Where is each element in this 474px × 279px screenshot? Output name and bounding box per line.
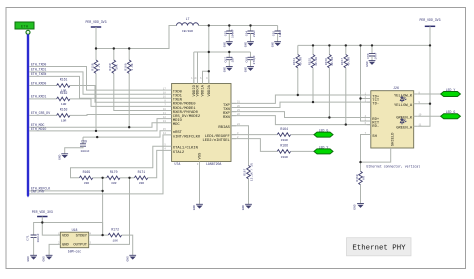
svg-text:YELLOW_A: YELLOW_A (394, 104, 413, 108)
ground for C64 (245, 42, 254, 48)
svg-text:GND: GND (27, 256, 30, 262)
svg-text:GND: GND (126, 256, 129, 262)
svg-text:PER_VDD_3V3: PER_VDD_3V3 (32, 210, 53, 214)
svg-text:49.9R: 49.9R (348, 57, 351, 66)
svg-text:VDD2A: VDD2A (208, 84, 212, 96)
junction at (97.2,137.1) (96, 136, 98, 138)
connector J26 RJ45 (365, 86, 422, 148)
capacitor C71 (27, 223, 43, 256)
wire ETH_TXEN (29, 76, 167, 98)
svg-text:1.5K: 1.5K (131, 63, 134, 70)
svg-text:ETH: ETH (21, 26, 29, 30)
ground for R172 (126, 255, 136, 261)
svg-text:GND: GND (223, 67, 226, 73)
svg-text:4.7K: 4.7K (98, 63, 101, 70)
svg-text:10K: 10K (112, 240, 118, 243)
svg-text:GND: GND (272, 42, 275, 48)
svg-text:10R: 10R (61, 103, 67, 106)
port LED_Y (green flag) (314, 145, 333, 154)
capacitor C69 on reset node (65, 137, 90, 154)
svg-text:L7: L7 (186, 17, 190, 21)
wire TXP to TD+ (231, 95, 371, 103)
junction at (297.8,95) (297, 94, 299, 96)
capacitor C63 (224, 26, 234, 42)
wire R164 to LED_G (291, 134, 314, 136)
svg-text:10R: 10R (61, 120, 67, 123)
capacitor C64 (246, 26, 256, 42)
junction at (129.2,48.5) (128, 47, 130, 49)
resistor R167 bias (244, 163, 254, 204)
svg-text:49.9R: 49.9R (331, 57, 334, 66)
wire TXN to TD- (231, 102, 371, 107)
svg-text:R167: R167 (244, 168, 247, 175)
svg-text:22uF: 22uF (253, 30, 256, 37)
wire ETH_RXD0 (right of R161) (70, 86, 167, 103)
svg-text:GND: GND (59, 154, 62, 160)
wire refclk node down to oscillator STBY (102, 178, 104, 235)
wire ETH_TXD0 (29, 67, 167, 91)
wire LED2 row (231, 139, 277, 152)
svg-text:U7A: U7A (175, 162, 181, 166)
resistor R172 (108, 227, 121, 242)
svg-text:LED2/nINTSEL: LED2/nINTSEL (202, 138, 230, 143)
wire ETH_CRS_DV (right of R163) (70, 114, 167, 117)
svg-text:YELLOW_K: YELLOW_K (394, 94, 413, 98)
wire ETH_RXD1 (right of R162) (70, 99, 167, 107)
junction at (129.2,127.2) (128, 126, 130, 128)
resistor R156 termination (325, 45, 334, 117)
svg-text:49.9R: 49.9R (300, 57, 303, 66)
svg-text:STDBY: STDBY (76, 234, 88, 238)
svg-text:C71: C71 (27, 235, 30, 241)
capacitor C68 (246, 52, 256, 67)
wire R172 to ground (122, 235, 133, 255)
svg-text:ETH_MDIO: ETH_MDIO (31, 127, 46, 131)
svg-text:0R: 0R (362, 176, 365, 180)
wire ETH_CRS_DV (left of R163) (29, 114, 57, 116)
svg-text:33R: 33R (84, 182, 90, 185)
junction at (129.5,177.8) (128, 177, 130, 179)
resistor R169 (79, 170, 92, 185)
junction at (229.3,25.5) (228, 24, 230, 26)
svg-text:GND: GND (43, 256, 46, 262)
ground for C71 (27, 255, 37, 261)
ground for C63 (223, 42, 232, 48)
resistor R160 pull-up (125, 49, 134, 128)
wire ETH_MDC (29, 123, 167, 128)
junction at (313,102.1) (312, 101, 314, 103)
junction at (329.4,117.5) (328, 116, 330, 118)
wire digital rail2 (194, 52, 251, 84)
wire XTAL1 to refclk chain (71, 146, 167, 178)
svg-text:C64: C64 (246, 31, 249, 37)
resistor R155 termination (308, 45, 317, 102)
pin stubs right (414, 94, 418, 126)
capacitor C66 termination center (367, 45, 377, 60)
svg-text:R154: R154 (293, 58, 296, 65)
resistor R164 (277, 127, 290, 142)
diode green LED glyph (400, 118, 406, 125)
svg-text:R172: R172 (111, 227, 119, 231)
svg-text:OUTPUT: OUTPUT (73, 244, 87, 248)
svg-text:50M-osc: 50M-osc (68, 250, 81, 254)
ground for VSS (193, 204, 203, 210)
svg-text:R158: R158 (91, 63, 94, 70)
ground for C67 (223, 67, 232, 73)
resistor R166 (277, 144, 290, 159)
port LED_G (green flag) (314, 129, 333, 138)
junction at (345.8,124.6) (345, 123, 347, 125)
ground for oscillator (43, 255, 53, 261)
wire RXP to RD+ (231, 112, 371, 118)
resistor R168 shield (356, 171, 365, 203)
svg-text:R162: R162 (60, 91, 68, 95)
power PER_VDD_3V3 (right) (419, 18, 440, 45)
svg-text:nINT/REFCLKO: nINT/REFCLKO (173, 134, 201, 139)
wire ETH_MDIO (29, 119, 167, 131)
svg-text:10nF: 10nF (279, 30, 282, 37)
junction at (229.3,52) (228, 51, 230, 53)
svg-text:R157: R157 (341, 58, 344, 65)
wire LED1 row (231, 134, 277, 136)
svg-text:1uF: 1uF (232, 57, 235, 63)
svg-text:270pF: 270pF (253, 55, 256, 64)
wire GREEN_K to LED_G (418, 115, 441, 117)
svg-text:10nF: 10nF (374, 52, 377, 59)
svg-text:GND: GND (193, 205, 196, 211)
pin stubs top (194, 80, 209, 84)
ground for R167 (242, 204, 252, 210)
svg-text:GND: GND (62, 244, 70, 248)
resistor R159 pull-up (109, 49, 166, 111)
wire YELLOW_K to LED_Y (418, 93, 441, 95)
svg-text:ETH_RXD1: ETH_RXD1 (31, 95, 46, 99)
junction at (96,130.9) (95, 130, 97, 132)
ground for C65 (272, 42, 281, 48)
junction at (430,45.4) (429, 44, 431, 46)
svg-text:100nF: 100nF (80, 150, 89, 153)
svg-text:GND: GND (242, 205, 245, 211)
junction at (208.8,71.3) (208, 70, 210, 72)
svg-text:R169: R169 (83, 170, 91, 174)
wire ETH_INT (29, 135, 167, 194)
svg-text:C63: C63 (224, 31, 227, 37)
svg-text:VDDCR: VDDCR (197, 84, 201, 96)
ground for C69 (59, 154, 68, 160)
junction at (430,103.7) (429, 103, 431, 105)
title block Ethernet PHY (347, 238, 412, 256)
svg-text:RXN: RXN (223, 116, 230, 120)
svg-text:Ethernet PHY: Ethernet PHY (352, 245, 406, 253)
svg-text:ETH_CRS_DV: ETH_CRS_DV (31, 111, 50, 115)
resistor R158 pull-up (91, 49, 100, 131)
svg-text:PER_VDD_3V3: PER_VDD_3V3 (419, 18, 440, 22)
svg-text:R168: R168 (356, 174, 359, 181)
resistor R157 termination (341, 45, 350, 124)
wire ETH_RXD0 (left of R161) (29, 85, 57, 87)
inductor L7 ferrite bead (177, 17, 199, 33)
svg-text:12.1K / 1%: 12.1K / 1% (250, 163, 254, 181)
wire LED anode supply (418, 45, 430, 126)
svg-text:TD-: TD- (372, 103, 379, 107)
junction at (329.4,45.4) (328, 44, 330, 46)
port LED_G right (green flag) (441, 110, 461, 119)
junction at (313,45.4) (312, 44, 314, 46)
wire center taps TCT/RCT to rail (361, 45, 371, 121)
svg-text:C66: C66 (367, 53, 370, 59)
svg-text:49.9R: 49.9R (315, 57, 318, 66)
wire analog rail after L7 (199, 25, 278, 27)
svg-text:RD-: RD- (372, 125, 379, 129)
wire RBIAS (231, 126, 249, 166)
svg-text:100nF: 100nF (37, 233, 40, 242)
svg-text:XTAL2: XTAL2 (173, 151, 185, 155)
wire osc OUTPUT up to chain (89, 178, 130, 245)
svg-text:C68: C68 (246, 57, 249, 63)
junction at (345.8,45.4) (345, 44, 347, 46)
svg-text:MDC: MDC (173, 123, 181, 127)
resistor R163 (57, 107, 70, 122)
junction at (113.8,48.5) (113, 47, 115, 49)
power PER_VDD_3V3 (bottom) (32, 210, 53, 223)
svg-text:FB/30R: FB/30R (182, 29, 193, 33)
junction at (360.5,162.1) (359, 161, 361, 163)
svg-text:PER_VDD_3V3: PER_VDD_3V3 (85, 20, 106, 24)
svg-text:VDD1A: VDD1A (202, 84, 206, 96)
wire ETH_RXD1 (left of R162) (29, 98, 57, 100)
port LED_Y right (green flag) (441, 88, 461, 97)
svg-text:Ethernet connector, vertical: Ethernet connector, vertical (367, 165, 421, 169)
svg-text:33R: 33R (139, 182, 145, 185)
wire ETH_TXD1 (29, 72, 167, 94)
bus entry node circle (26, 30, 30, 34)
svg-text:ETH_TXEN: ETH_TXEN (31, 72, 46, 76)
diode yellow LED glyph (400, 96, 406, 103)
svg-text:LAN8720A: LAN8720A (206, 162, 221, 166)
svg-text:J26: J26 (393, 86, 399, 90)
svg-text:C69: C69 (81, 140, 87, 144)
junction at (96,48.5) (95, 47, 97, 49)
junction at (102.6,177.8) (101, 177, 103, 179)
junction at (208.8,25.5) (208, 24, 210, 26)
resistor R161 (57, 77, 70, 92)
wire bus ETH (blue) (27, 34, 29, 195)
wire STBY to R172 (89, 234, 109, 236)
svg-text:R170: R170 (110, 170, 118, 174)
svg-text:VSS: VSS (199, 152, 203, 160)
wire reset node to nRST (83, 131, 167, 137)
svg-text:100nF: 100nF (232, 29, 235, 38)
wire chain node 1 (93, 177, 107, 179)
svg-text:R155: R155 (308, 58, 311, 65)
wire VDD1A/VDD2A to analog rail (203, 26, 209, 84)
resistor R170 (107, 170, 120, 185)
svg-text:R171: R171 (138, 170, 146, 174)
junction at (372,45.4) (371, 44, 373, 46)
junction at (42.3,222.5) (41, 221, 43, 223)
ground for R168 (354, 204, 364, 210)
junction at (208.8,52) (208, 51, 210, 53)
power PER_VDD_3V3 (left) (85, 20, 106, 49)
wire ETH_REFCLK (29, 190, 103, 192)
svg-text:330R: 330R (281, 156, 288, 159)
svg-text:SHIELD: SHIELD (392, 132, 396, 146)
svg-text:R159: R159 (109, 63, 112, 70)
pin stubs left (167, 90, 172, 150)
svg-text:R160: R160 (125, 63, 128, 70)
svg-text:33R: 33R (111, 182, 117, 185)
wire 3V3 to osc VDD and STBY pullup (42, 223, 102, 236)
svg-text:330R: 330R (281, 139, 288, 142)
pin stub bottom VSS (199, 162, 201, 166)
svg-text:GREEN_A: GREEN_A (396, 127, 413, 131)
wire RXN to RD- (231, 116, 371, 125)
wire termination rail 3V3 (298, 44, 430, 46)
svg-text:R156: R156 (325, 58, 328, 65)
svg-text:INT_PHY: INT_PHY (31, 190, 44, 194)
junction at (360.5,45.4) (359, 44, 361, 46)
port ETH bus entry (green) (15, 22, 34, 30)
svg-text:R164: R164 (280, 127, 288, 131)
wire chain node 2 (120, 177, 134, 179)
svg-text:R161: R161 (60, 77, 68, 81)
svg-text:10K: 10K (116, 64, 119, 70)
svg-text:GND: GND (245, 42, 248, 48)
wire VSS to ground (199, 162, 201, 205)
svg-text:VDD: VDD (62, 234, 70, 238)
wire osc GND pin (49, 244, 60, 255)
junction at (102.6,190.9) (101, 190, 103, 192)
capacitor C65 (273, 26, 282, 42)
svg-text:ETH_TXD0: ETH_TXD0 (31, 62, 46, 66)
junction at (360.5,98.5) (359, 97, 361, 99)
svg-text:U18: U18 (72, 228, 78, 232)
op IC U7A LAN8720A PHY (163, 77, 241, 166)
junction at (102.6,235.1) (101, 234, 103, 236)
junction at (250.5,25.5) (249, 24, 251, 26)
ground for C68 (245, 67, 254, 73)
wire rail PER_VDD_3V3 to L7 (96, 26, 177, 49)
svg-text:GND: GND (245, 67, 248, 73)
svg-text:C67: C67 (224, 57, 227, 63)
wire R166 to LED_Y (291, 150, 314, 152)
svg-text:C65: C65 (273, 31, 276, 37)
svg-text:ETH_RXD0: ETH_RXD0 (31, 81, 46, 85)
svg-text:GND: GND (354, 204, 357, 210)
capacitor C67 (224, 52, 234, 67)
svg-text:GND: GND (366, 61, 369, 67)
svg-text:R166: R166 (280, 144, 288, 148)
pin stubs left (367, 95, 371, 135)
wire shield to R168 (361, 135, 391, 172)
svg-text:ETH_TXD1: ETH_TXD1 (31, 68, 46, 72)
svg-text:SH: SH (372, 135, 377, 139)
oscillator U18 50MHz (58, 228, 91, 254)
svg-text:RBIAS: RBIAS (218, 126, 230, 130)
resistor R154 termination (293, 45, 302, 95)
resistor R162 (57, 91, 70, 106)
svg-text:R163: R163 (60, 107, 68, 111)
svg-text:GND: GND (223, 42, 226, 48)
wire R171 to XTAL2 (148, 150, 167, 177)
pin stubs right (231, 103, 236, 138)
resistor R171 (134, 170, 147, 185)
ground for C66 (366, 61, 375, 67)
